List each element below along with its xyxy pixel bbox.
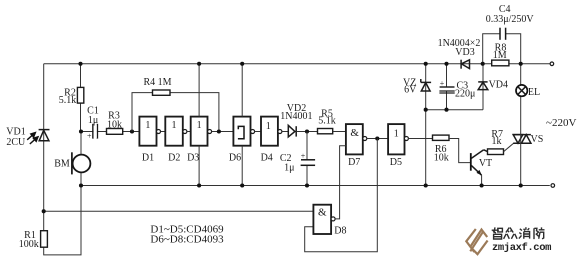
- photodiode light arrows: [27, 133, 38, 144]
- resistor R3: [107, 129, 123, 135]
- diode VD3 inline: [461, 60, 469, 69]
- svg-text:1: 1: [266, 121, 271, 132]
- node top rail C3: [444, 62, 448, 66]
- svg-text:D6~D8:CD4093: D6~D8:CD4093: [150, 233, 224, 245]
- node mid rail D3: [197, 183, 201, 187]
- capacitor C4 parallel branch: [483, 34, 500, 64]
- svg-text:+: +: [87, 131, 92, 140]
- svg-text:VD3: VD3: [455, 47, 474, 58]
- node C2 top: [305, 129, 309, 133]
- svg-text:1: 1: [172, 120, 177, 131]
- wire D7-D5: [367, 138, 388, 140]
- wire C2 branch: [306, 132, 308, 160]
- wire VD2-R5: [296, 131, 317, 133]
- wire D2-D3: [187, 131, 191, 133]
- nand gate D8: [313, 205, 331, 234]
- lamp EL: [516, 85, 527, 96]
- node mid rail BM: [79, 183, 83, 187]
- wire R5-D7: [333, 131, 346, 133]
- svg-text:D5: D5: [390, 157, 402, 168]
- wire VZ-C3-VD4 bottom: [426, 109, 483, 111]
- node R4-D3 out: [217, 129, 221, 133]
- wire D3 power top: [198, 64, 200, 117]
- watermark text 智淼消防: [492, 227, 545, 239]
- svg-text:100k: 100k: [19, 239, 39, 250]
- svg-text:10k: 10k: [107, 119, 122, 130]
- svg-text:1: 1: [197, 120, 202, 131]
- svg-text:D2: D2: [168, 152, 180, 163]
- svg-text:1M: 1M: [493, 50, 507, 61]
- resistor R8 inline: [492, 60, 509, 66]
- svg-text:5.1k: 5.1k: [318, 116, 336, 127]
- transistor VT: [471, 150, 488, 186]
- wire D1-D2: [161, 131, 166, 133]
- diode VD1 (photodiode): [39, 130, 50, 141]
- node D1 input: [130, 129, 134, 133]
- wire R1 branch and bottom loop: [44, 172, 81, 255]
- node top rail D6: [240, 62, 244, 66]
- svg-text:&: &: [350, 127, 359, 139]
- inverter D1: [139, 117, 156, 146]
- capacitor C1: [93, 124, 98, 139]
- resistor R1: [41, 231, 48, 248]
- svg-text:2CU: 2CU: [6, 137, 26, 148]
- svg-text:1k: 1k: [492, 136, 502, 147]
- node mid rail D6: [240, 183, 244, 187]
- wire D6 power bottom: [241, 146, 243, 186]
- capacitor C3: [446, 64, 448, 87]
- svg-text:BM: BM: [54, 158, 70, 169]
- nand gate D7: [346, 124, 363, 154]
- node top rail VZ: [424, 62, 428, 66]
- node D7 out: [375, 136, 379, 140]
- node mid rail VS: [519, 183, 523, 187]
- terminal top right: [550, 62, 554, 66]
- resistor R5: [318, 129, 333, 134]
- svg-text:zmjaxf.com: zmjaxf.com: [492, 242, 551, 254]
- node mid rail C2: [305, 183, 309, 187]
- svg-text:D1: D1: [142, 152, 154, 163]
- inverter D5: [388, 124, 404, 154]
- svg-text:+: +: [440, 79, 445, 88]
- wire D5-R6: [408, 138, 432, 140]
- wire top rail: [44, 63, 550, 65]
- svg-text:1μ: 1μ: [284, 163, 294, 174]
- svg-text:10k: 10k: [434, 153, 449, 164]
- node rail2 left: [42, 209, 46, 213]
- node R2-C1-BM: [79, 129, 83, 133]
- wire D8 out to D7 input2: [335, 146, 346, 219]
- svg-text:D6: D6: [229, 152, 241, 163]
- inverter D4: [261, 117, 278, 146]
- wire D6 power top: [241, 64, 243, 117]
- svg-text:5.1k: 5.1k: [59, 95, 77, 106]
- microphone BM: [80, 132, 82, 156]
- svg-text:EL: EL: [528, 87, 540, 98]
- node top rail VD4-C4: [481, 62, 485, 66]
- wire R7 to VS gate: [504, 143, 514, 152]
- inverter D3: [191, 117, 208, 146]
- svg-text:VS: VS: [531, 134, 544, 145]
- wire rail2 to D8 input1: [44, 210, 314, 212]
- wire D6-D4: [255, 131, 261, 133]
- node top rail EL-C4: [519, 62, 523, 66]
- svg-text:D3: D3: [187, 152, 199, 163]
- svg-text:6V: 6V: [404, 84, 417, 95]
- svg-text:1: 1: [394, 128, 399, 139]
- resistor R4: [153, 90, 171, 95]
- node mid rail VZ: [424, 183, 428, 187]
- svg-text:220μ: 220μ: [455, 89, 475, 100]
- wire C1-R3 row: [81, 131, 139, 133]
- zener VZ: [425, 64, 427, 186]
- wire R4 feedback loop: [132, 93, 153, 132]
- resistor R7: [488, 149, 504, 155]
- node C3 bottom wire: [444, 108, 448, 112]
- wire mid rail: [81, 185, 550, 187]
- inverter D2: [165, 117, 183, 146]
- wire D3-D6: [212, 131, 234, 133]
- resistor R6: [433, 135, 450, 140]
- svg-text:~220V: ~220V: [546, 117, 576, 129]
- svg-text:D4: D4: [261, 152, 273, 163]
- svg-text:VD4: VD4: [489, 79, 508, 90]
- svg-text:D8: D8: [334, 225, 346, 236]
- svg-text:VD1: VD1: [6, 127, 25, 138]
- capacitor C2: [301, 160, 316, 166]
- triac VS: [513, 135, 531, 144]
- wire D7out-D8 loop: [305, 139, 378, 252]
- diode VD4: [482, 64, 484, 110]
- svg-text:D7: D7: [348, 157, 360, 168]
- svg-text:0.33μ/250V: 0.33μ/250V: [486, 14, 535, 25]
- terminal bottom right: [551, 184, 555, 188]
- diode VD2: [288, 125, 295, 136]
- watermark logo: [466, 229, 487, 254]
- schmitt gate D6: [233, 117, 250, 146]
- wire R6 to VT base: [449, 139, 470, 163]
- resistor R2: [80, 64, 82, 132]
- node top rail D3: [197, 62, 201, 66]
- wire left vertical: [43, 64, 45, 212]
- svg-text:+: +: [301, 152, 306, 161]
- node top rail R2: [78, 62, 82, 66]
- svg-text:&: &: [318, 207, 327, 219]
- svg-text:R4 1M: R4 1M: [143, 77, 171, 88]
- node VZ bottom wire: [424, 108, 428, 112]
- svg-text:1N4001: 1N4001: [280, 111, 312, 122]
- wire EL-VS vertical: [520, 64, 522, 85]
- svg-text:1: 1: [145, 120, 150, 131]
- wire D4-VD2: [282, 131, 288, 133]
- svg-text:VT: VT: [479, 158, 492, 169]
- node mid rail VT: [480, 183, 484, 187]
- wire D3 power bottom: [198, 146, 200, 186]
- svg-text:1μ: 1μ: [88, 115, 98, 126]
